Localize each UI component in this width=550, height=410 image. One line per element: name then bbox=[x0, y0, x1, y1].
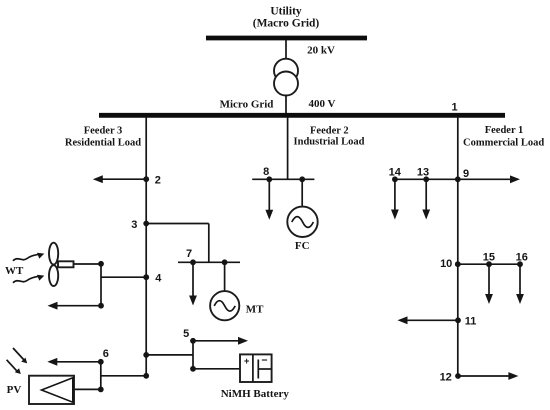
svg-text:Industrial Load: Industrial Load bbox=[294, 136, 365, 147]
wire: feeder 3 main vertical bbox=[145, 117, 147, 376]
node 11 junction bbox=[455, 317, 461, 323]
label: Feeder 2 Industrial Load bbox=[294, 126, 365, 148]
load arrow at node 12 bbox=[458, 372, 518, 380]
label: Utility (Macro Grid) bbox=[253, 6, 320, 30]
wire: feeder 3 to node 5 branch bbox=[146, 341, 193, 369]
node 6 junction bbox=[98, 359, 104, 365]
bus: node 9 bar with load arrow bbox=[395, 175, 520, 183]
node 8 label bbox=[263, 166, 269, 178]
svg-text:15: 15 bbox=[483, 251, 495, 263]
label: PV bbox=[7, 384, 22, 396]
label: NiMH Battery bbox=[221, 388, 290, 400]
wire: feeder 2 vertical bbox=[287, 117, 289, 179]
load arrow at node 8 bbox=[265, 179, 273, 220]
node 12 label bbox=[440, 371, 452, 383]
node 12 junction bbox=[455, 373, 461, 379]
svg-text:3: 3 bbox=[131, 219, 137, 231]
load arrow at node 14 bbox=[391, 179, 399, 219]
junction: feeder 3 to node 5 branch bbox=[143, 352, 149, 358]
svg-text:4: 4 bbox=[155, 273, 162, 285]
svg-text:WT: WT bbox=[5, 265, 24, 277]
svg-text:13: 13 bbox=[417, 167, 429, 179]
node 9 label bbox=[463, 168, 469, 180]
junction: WT branch load tap bbox=[98, 303, 104, 309]
svg-text:−: − bbox=[261, 355, 267, 367]
svg-text:Commercial Load: Commercial Load bbox=[463, 137, 544, 148]
svg-text:6: 6 bbox=[103, 348, 109, 360]
bus: micro grid 400 V bus bbox=[99, 113, 505, 118]
load arrow at node 7 bbox=[189, 262, 197, 305]
label: FC bbox=[295, 240, 310, 252]
node 14 junction bbox=[392, 176, 398, 182]
junction: battery tap bbox=[190, 366, 196, 372]
wire: PV branch vertical bbox=[100, 362, 102, 390]
wire: utility bus to transformer bbox=[285, 40, 287, 60]
bus: utility 20 kV bus bbox=[206, 36, 367, 41]
svg-text:Residential Load: Residential Load bbox=[65, 137, 141, 148]
node 2 junction bbox=[143, 176, 149, 182]
node 6 label bbox=[103, 348, 109, 360]
bus: node 8 bar bbox=[252, 178, 314, 180]
load arrow at node 5 bbox=[193, 337, 248, 345]
node 16 label bbox=[516, 251, 528, 263]
svg-text:400 V: 400 V bbox=[309, 98, 336, 110]
label: Feeder 3 Residential Load bbox=[65, 126, 141, 149]
svg-text:10: 10 bbox=[440, 258, 452, 270]
wind flow arrow lower bbox=[13, 275, 44, 283]
svg-text:Utility: Utility bbox=[270, 6, 302, 18]
load arrow at node 13 bbox=[422, 179, 430, 219]
svg-text:5: 5 bbox=[183, 328, 189, 340]
node 4 label bbox=[155, 273, 162, 285]
node 3 label bbox=[131, 219, 137, 231]
svg-text:FC: FC bbox=[295, 240, 310, 252]
svg-text:(Macro Grid): (Macro Grid) bbox=[253, 18, 320, 30]
node 5 junction bbox=[190, 338, 196, 344]
svg-text:Feeder 1: Feeder 1 bbox=[485, 125, 524, 136]
label: Feeder 1 Commercial Load bbox=[463, 125, 544, 148]
svg-text:+: + bbox=[244, 356, 250, 367]
wire: node 5 branch to battery bbox=[193, 368, 240, 370]
svg-text:20 kV: 20 kV bbox=[307, 45, 335, 57]
node 14 label bbox=[389, 167, 402, 179]
load arrow on WT branch bbox=[48, 302, 102, 310]
label: MT bbox=[246, 303, 264, 315]
wire: node 7 bar to MT bbox=[224, 262, 226, 291]
wire: feeder 1 vertical bbox=[457, 117, 459, 376]
wind flow arrow upper bbox=[13, 253, 44, 261]
node 8 junction bbox=[266, 176, 272, 182]
transformer T1 bbox=[274, 59, 298, 96]
junction on node 7 bar (load tap) bbox=[190, 259, 196, 265]
node 10 label bbox=[440, 258, 452, 270]
junction: FC tap bbox=[299, 176, 305, 182]
node 5 label bbox=[183, 328, 189, 340]
node 11 label bbox=[465, 315, 477, 327]
load arrow at node 15 bbox=[485, 264, 493, 304]
node 13 junction bbox=[423, 176, 429, 182]
svg-text:16: 16 bbox=[516, 251, 528, 263]
node 10 junction bbox=[455, 261, 461, 267]
wind turbine WT bbox=[49, 243, 74, 286]
junction: PV tap bbox=[98, 387, 104, 393]
load arrow at node 2 bbox=[93, 175, 146, 183]
svg-text:7: 7 bbox=[186, 248, 192, 260]
junction: WT tap bbox=[98, 261, 104, 267]
load arrow at node 6 bbox=[47, 358, 101, 366]
node 3 junction bbox=[143, 221, 149, 227]
node 15 junction bbox=[486, 261, 492, 267]
wire: node 8 bar to FC bbox=[301, 179, 303, 206]
svg-text:14: 14 bbox=[389, 167, 402, 179]
svg-text:Micro Grid: Micro Grid bbox=[220, 99, 274, 111]
svg-text:9: 9 bbox=[463, 168, 469, 180]
wire: feeder 3 end to PV branch bbox=[101, 375, 146, 377]
node 2 label bbox=[155, 174, 161, 186]
node 16 junction bbox=[517, 261, 523, 267]
svg-text:1: 1 bbox=[451, 102, 457, 114]
svg-text:12: 12 bbox=[440, 371, 452, 383]
svg-text:2: 2 bbox=[155, 174, 161, 186]
node 9 junction bbox=[455, 176, 461, 182]
svg-text:11: 11 bbox=[465, 315, 477, 327]
bus: node 7 bar bbox=[178, 261, 240, 263]
value label: 20 kV bbox=[307, 45, 335, 57]
svg-text:Feeder 3: Feeder 3 bbox=[84, 126, 123, 137]
node 15 label bbox=[483, 251, 495, 263]
node 4 junction bbox=[143, 274, 149, 280]
node 13 label bbox=[417, 167, 429, 179]
node 1 label bbox=[451, 102, 457, 114]
junction on node 7 bar (MT tap) bbox=[222, 259, 228, 265]
sun ray arrow 2 bbox=[7, 360, 21, 374]
wire: WT branch vertical bbox=[100, 264, 102, 306]
wire: WT hub to branch bbox=[74, 263, 102, 265]
load arrow at node 16 bbox=[516, 264, 524, 304]
fuel cell FC bbox=[287, 207, 317, 237]
micro turbine MT bbox=[210, 291, 239, 320]
svg-text:8: 8 bbox=[263, 166, 269, 178]
label: Micro Grid bbox=[220, 99, 274, 111]
load arrow at node 11 bbox=[398, 316, 459, 324]
junction: feeder 3 end to PV branch bbox=[143, 373, 149, 379]
NiMH battery bbox=[240, 354, 272, 382]
value label: 400 V bbox=[309, 98, 336, 110]
svg-text:MT: MT bbox=[246, 303, 264, 315]
wire: node 4 to WT branch bbox=[101, 276, 146, 278]
svg-text:PV: PV bbox=[7, 384, 22, 396]
sun ray arrow 1 bbox=[13, 348, 27, 363]
svg-text:Feeder 2: Feeder 2 bbox=[310, 126, 349, 137]
svg-text:NiMH Battery: NiMH Battery bbox=[221, 388, 290, 400]
bus: node 10 bar bbox=[458, 263, 520, 265]
wire: node 3 branch to node 7 bbox=[146, 224, 209, 263]
photovoltaic panel PV bbox=[29, 376, 74, 404]
wire: PV tap to PV box bbox=[74, 388, 101, 390]
label: WT bbox=[5, 265, 24, 277]
wire: transformer to micro grid bus bbox=[285, 95, 287, 114]
node 7 label bbox=[186, 248, 192, 260]
